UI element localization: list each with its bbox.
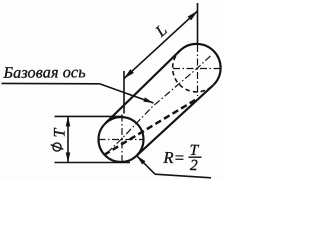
leader "Базовая ось": shelf line under text [2,82,100,84]
dimension фT: dimension line [67,116,69,162]
wire: extension line bottom-left of dimension L (vertical solid) [123,71,125,114]
leader R=T/2: arrowhead on circle edge [137,156,146,165]
svg-text:T: T [52,128,69,138]
leader "Базовая ось": arrowhead on axis [143,97,153,103]
cylinder tolerance zone: top circle solid cap arc (far end) [181,44,221,85]
cylinder tolerance zone: top circle hidden part (dashed arc) [173,50,214,92]
leader "Базовая ось": slanted leader line [100,84,154,103]
svg-text:Базовая ось: Базовая ось [2,63,85,82]
wire: extension line top-right of dimension L (vertical solid) [197,3,199,45]
centerline: bottom circle horizontal (dash-dot) [99,139,145,141]
cylinder tolerance zone: bottom circle (near end, solid) [99,117,144,162]
dimension фT: lower extension line [55,162,131,164]
cylinder tolerance zone: lower-right tangent line [136,85,213,156]
dimension фT: arrowhead down [66,153,71,163]
svg-text:R=: R= [162,148,185,167]
dimension L: arrowhead bottom-left [124,69,134,78]
centerline: cylinder axis diagonal through both centers (dash-dot) [107,55,212,154]
leader R=T/2: slanted leader line [137,156,155,174]
dimension L: dimension line [124,11,198,79]
symbol ф (diameter) of dimension label фT [51,143,64,151]
dimension фT: arrowhead up [66,116,71,126]
svg-text:2: 2 [190,157,198,174]
centerline: top circle horizontal (dash-dot) [173,68,222,70]
fraction bar of T/2 [189,156,202,158]
cylinder tolerance zone: upper-left tangent line [106,50,181,123]
centerline: bottom circle vertical (dash-dot, continues extension line) [121,115,123,165]
dimension фT: upper extension line [55,115,124,117]
leader R=T/2: shelf line [155,174,211,178]
dimension L: arrowhead top-right [188,11,198,20]
centerline: top circle vertical (dash-dot) [197,45,199,96]
real axis: bold dashed line from bottom face edge to side surface [104,98,198,154]
